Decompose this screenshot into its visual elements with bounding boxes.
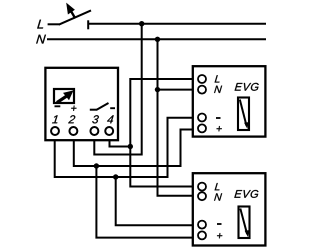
EVG1 label N [214, 86, 222, 93]
EVG2 terminal L [198, 183, 206, 191]
EVG2 terminal minus [198, 221, 206, 229]
ballast EVG2 box [193, 173, 266, 245]
wire minus branch to EVG2 minus [116, 177, 199, 225]
label minus terminal 4 [110, 107, 115, 109]
junction minus branch [113, 174, 118, 179]
wire N drop to EVG2 N [158, 39, 199, 196]
EVG1 label minus [216, 117, 221, 119]
EVG1 label L [215, 75, 220, 82]
pin number 2 [68, 115, 75, 123]
label minus terminal 1 [55, 105, 61, 107]
EVG1 dim element frame [238, 98, 249, 131]
wire N branch to EVG1 N [158, 89, 199, 91]
EVG2 terminal plus [198, 231, 206, 239]
EVG2 title [234, 190, 258, 198]
terminal circle 4 [105, 127, 113, 135]
wire terminal 2 plus to EVG1 plus [74, 130, 199, 167]
label plus terminal 2 [71, 106, 76, 111]
EVG1 terminal minus [198, 114, 206, 122]
wire N bus [47, 38, 266, 40]
switch S1 actuation arrow shaft [70, 10, 75, 19]
pin number 3 [92, 115, 99, 123]
EVG1 terminal N [198, 86, 206, 94]
EVG1 terminal plus [198, 124, 206, 132]
wire plus branch to EVG2 plus [96, 166, 198, 238]
node N label [36, 35, 46, 44]
EVG1 dim element arrow [240, 100, 247, 127]
EVG2 label N [214, 193, 222, 200]
terminal circle 1 [51, 127, 59, 135]
EVG2 terminal N [198, 192, 206, 200]
junction plus branch [94, 163, 99, 168]
wire L drop to terminal 3 [94, 24, 141, 155]
dimmer symbol arrow [56, 90, 74, 103]
junction L feed / terminal 4 [128, 144, 133, 149]
EVG1 label plus [217, 126, 222, 131]
EVG2 label plus [217, 233, 222, 238]
relay contact symbol [90, 109, 97, 111]
wire terminal 4 to junction [110, 135, 131, 146]
control unit U1 box [45, 68, 118, 140]
EVG1 title [235, 83, 259, 91]
EVG2 dim element arrow [240, 209, 247, 235]
terminal circle 2 [69, 127, 77, 135]
junction N to EVG1 [155, 87, 160, 92]
switch S1 actuation arrow head [66, 3, 75, 15]
EVG2 label minus [217, 223, 222, 225]
EVG1 terminal L [198, 75, 206, 83]
terminal circle 3 [90, 127, 98, 135]
EVG2 label L [215, 183, 220, 190]
wire L lead-in [48, 23, 60, 25]
pin number 4 [107, 115, 114, 123]
switch S1 blade [59, 10, 91, 24]
pin number 1 [52, 115, 58, 123]
junction on N bus [155, 37, 160, 42]
wire L bus [88, 23, 266, 25]
wire EVG1 L feed down to EVG2 L [130, 79, 198, 187]
switch S1 right contact tick [87, 20, 89, 29]
dimmer symbol frame [54, 89, 74, 103]
EVG2 dim element frame [239, 207, 250, 239]
ballast EVG1 box [193, 66, 266, 136]
wire terminal 1 minus to EVG1 minus [55, 118, 199, 177]
node L label [37, 20, 43, 29]
junction on L bus [139, 21, 144, 26]
